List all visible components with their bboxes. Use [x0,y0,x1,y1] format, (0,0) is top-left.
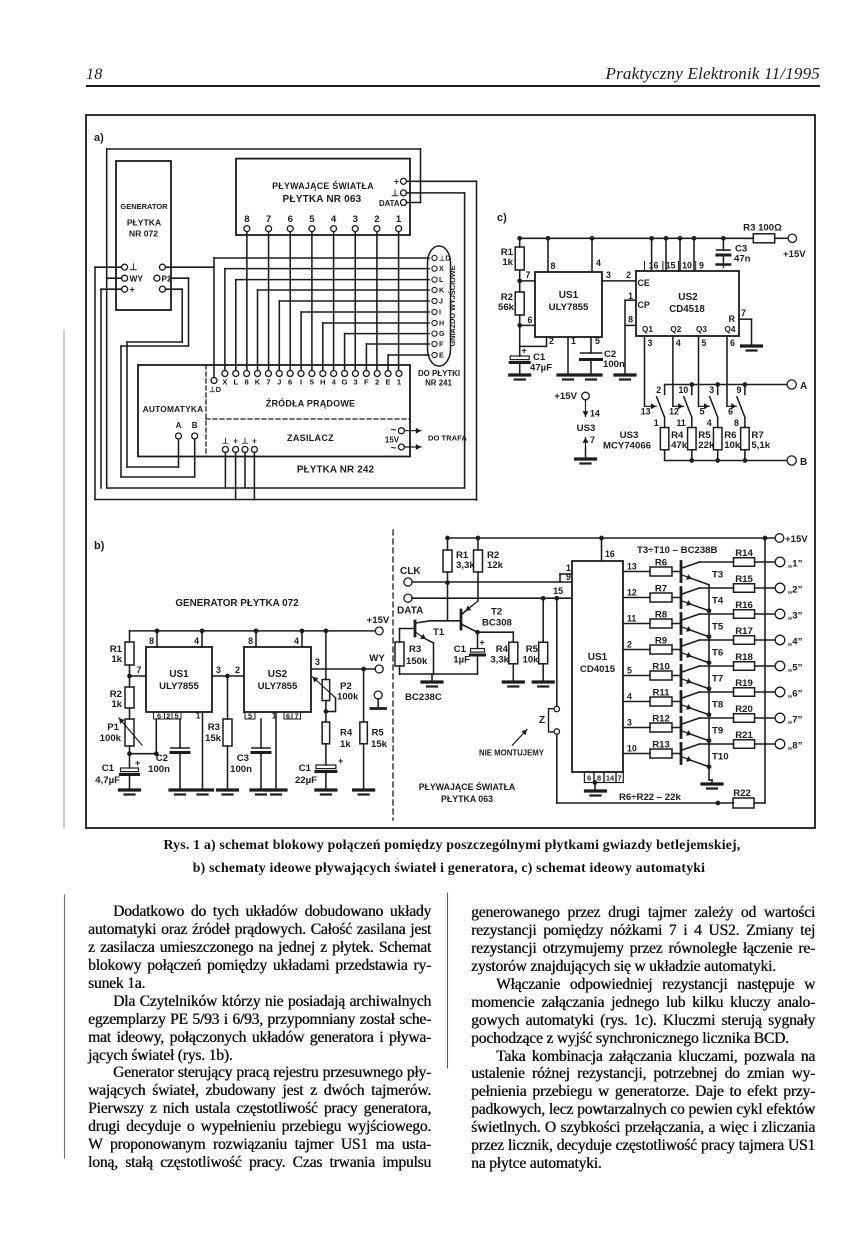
svg-text:b): b) [94,540,105,552]
svg-text:47k: 47k [671,440,688,451]
svg-text:R4: R4 [496,644,509,655]
svg-text:c): c) [497,212,507,224]
svg-text:CD4518: CD4518 [669,304,705,315]
svg-text:R6: R6 [655,558,667,569]
svg-text:5: 5 [700,407,705,417]
svg-text:T4: T4 [712,596,724,607]
svg-text:1µF: 1µF [453,655,470,666]
svg-text:14: 14 [606,774,615,783]
svg-text:T9: T9 [712,726,723,737]
svg-text:PŁYTKA 063: PŁYTKA 063 [441,794,493,804]
svg-text:3: 3 [353,214,358,225]
svg-text:+15V: +15V [367,615,390,626]
svg-text:G: G [342,378,348,387]
svg-text:R: R [729,314,736,324]
svg-text:„3”: „3” [788,611,803,622]
svg-text:4: 4 [331,214,337,225]
svg-text:1: 1 [397,378,402,387]
svg-text:11: 11 [627,614,636,624]
svg-text:DATA: DATA [379,199,400,208]
svg-text:DO PŁYTKI: DO PŁYTKI [418,369,460,378]
svg-text:6: 6 [286,711,290,720]
svg-text:⊥: ⊥ [222,437,229,446]
svg-text:15: 15 [553,586,563,596]
svg-text:~: ~ [391,425,397,436]
svg-text:16: 16 [649,261,659,271]
svg-text:100n: 100n [230,764,252,775]
svg-text:22µF: 22µF [295,775,317,786]
svg-text:Q3: Q3 [696,325,707,334]
svg-text:2: 2 [375,378,379,387]
svg-text:8: 8 [734,418,739,428]
svg-text:3: 3 [709,385,714,395]
svg-text:R16: R16 [735,600,753,611]
svg-text:7: 7 [137,665,142,675]
svg-text:„2”: „2” [788,585,803,596]
svg-text:PŁYTKA: PŁYTKA [127,218,161,228]
svg-text:P2: P2 [340,681,352,692]
svg-text:10: 10 [679,385,689,395]
svg-text:5: 5 [595,336,600,346]
svg-text:T3÷T10 – BC238B: T3÷T10 – BC238B [637,545,718,556]
svg-text:15k: 15k [205,733,222,744]
svg-text:R3: R3 [208,722,220,733]
svg-text:5: 5 [174,711,178,720]
svg-text:PŁYWAJĄCE ŚWIATŁA: PŁYWAJĄCE ŚWIATŁA [272,180,374,191]
svg-text:4: 4 [596,258,601,268]
svg-text:T3: T3 [712,570,723,581]
svg-text:2: 2 [166,711,170,720]
svg-text:C3: C3 [237,753,249,764]
svg-text:„5”: „5” [788,663,803,674]
svg-text:+: + [130,285,135,295]
svg-text:5,1k: 5,1k [751,440,770,451]
svg-text:C1: C1 [299,763,312,774]
svg-text:8: 8 [597,774,601,783]
svg-text:DO TRAFA: DO TRAFA [428,434,467,443]
svg-text:5: 5 [627,666,632,676]
svg-text:2: 2 [374,214,379,225]
svg-text:US3: US3 [577,423,596,434]
svg-text:BC308: BC308 [482,618,513,629]
svg-text:K: K [255,378,261,387]
svg-text:⊥D: ⊥D [439,254,450,263]
svg-text:5: 5 [310,378,315,387]
svg-text:C1: C1 [102,763,115,774]
svg-text:5: 5 [702,338,707,348]
svg-text:T10: T10 [712,752,729,763]
svg-text:100k: 100k [100,733,122,744]
svg-text:4: 4 [194,636,199,646]
svg-text:R5: R5 [526,644,539,655]
svg-text:1: 1 [571,336,576,346]
svg-text:1: 1 [196,711,201,720]
svg-text:US2: US2 [268,669,288,680]
svg-text:13: 13 [627,562,637,572]
svg-text:A: A [176,421,182,430]
svg-text:56k: 56k [498,302,515,313]
svg-text:9: 9 [736,385,741,395]
svg-text:PŁYTKA NR 063: PŁYTKA NR 063 [283,194,362,205]
svg-text:AUTOMATYKA: AUTOMATYKA [143,404,204,414]
svg-text:R12: R12 [652,714,670,725]
svg-text:6: 6 [528,315,533,325]
svg-text:F: F [439,340,444,349]
svg-text:47n: 47n [734,254,751,265]
svg-text:1: 1 [654,418,659,428]
svg-text:R9: R9 [655,636,667,647]
svg-text:6: 6 [288,214,293,225]
svg-text:T5: T5 [712,622,724,633]
svg-text:ULY7855: ULY7855 [549,302,589,313]
svg-text:E: E [386,378,391,387]
svg-text:„1”: „1” [788,559,803,570]
svg-text:22k: 22k [698,440,715,451]
svg-text:B: B [800,457,807,468]
svg-text:R11: R11 [652,688,670,699]
svg-text:R7: R7 [655,584,667,595]
svg-text:4: 4 [676,338,681,348]
svg-text:CLK: CLK [400,566,421,577]
svg-text:P1: P1 [107,722,119,733]
svg-text:G: G [439,329,445,338]
svg-text:12: 12 [669,407,679,417]
svg-text:1k: 1k [111,654,122,665]
svg-text:I: I [439,308,441,317]
svg-text:+15V: +15V [785,534,808,545]
svg-text:13: 13 [641,407,651,417]
svg-text:R20: R20 [735,704,753,715]
svg-text:ZASILACZ: ZASILACZ [287,433,334,443]
svg-text:R21: R21 [735,730,753,741]
svg-text:3: 3 [315,657,320,667]
svg-text:⊥D: ⊥D [209,385,222,394]
svg-text:100n: 100n [148,764,170,775]
svg-text:10: 10 [682,261,692,271]
svg-text:4: 4 [627,692,632,702]
svg-text:DATA: DATA [397,606,423,617]
svg-text:ULY7855: ULY7855 [258,681,298,692]
svg-text:BC238C: BC238C [405,692,442,703]
svg-text:„4”: „4” [788,637,803,648]
svg-text:6: 6 [157,711,161,720]
svg-text:R3: R3 [409,644,421,655]
svg-text:GNIAZDO WYJŚCIOWE: GNIAZDO WYJŚCIOWE [448,265,457,346]
svg-text:+15V: +15V [783,249,806,260]
svg-text:R3 100Ω: R3 100Ω [743,223,782,234]
svg-text:T2: T2 [491,607,502,618]
svg-text:15k: 15k [371,739,388,750]
svg-text:H: H [320,378,325,387]
svg-text:T8: T8 [712,700,724,711]
svg-text:2: 2 [627,640,632,650]
svg-text:+: + [394,177,399,187]
svg-text:7: 7 [266,378,270,387]
svg-text:4: 4 [294,636,299,646]
svg-text:~: ~ [391,443,397,454]
svg-text:R19: R19 [735,678,753,689]
svg-text:NR 241: NR 241 [425,379,452,388]
svg-text:T1: T1 [433,627,445,638]
svg-text:6: 6 [730,338,735,348]
svg-text:12: 12 [627,588,637,598]
svg-text:8: 8 [149,636,154,646]
svg-text:6: 6 [728,407,733,417]
svg-text:16: 16 [605,549,615,559]
svg-text:WY: WY [369,653,385,664]
svg-text:7: 7 [618,774,622,783]
svg-text:12k: 12k [487,560,504,571]
svg-text:4: 4 [332,378,337,387]
svg-text:ŹRÓDŁA PRĄDOWE: ŹRÓDŁA PRĄDOWE [266,398,355,409]
svg-text:8: 8 [244,214,250,225]
svg-text:1: 1 [396,214,402,225]
svg-text:T7: T7 [712,674,723,685]
svg-text:X: X [222,378,227,387]
svg-text:US1: US1 [169,669,189,680]
svg-text:R15: R15 [735,574,753,585]
svg-text:3,3k: 3,3k [490,655,509,666]
svg-text:7: 7 [526,270,531,280]
svg-text:R22: R22 [733,788,751,799]
svg-text:1k: 1k [340,739,351,750]
svg-text:7: 7 [266,214,271,225]
svg-text:3,3k: 3,3k [456,560,475,571]
svg-text:„6”: „6” [788,689,803,700]
svg-text:„8”: „8” [788,741,803,752]
svg-text:11: 11 [676,418,685,428]
svg-text:I: I [300,378,302,387]
svg-text:2: 2 [656,385,661,395]
svg-text:4: 4 [707,418,712,428]
svg-text:R18: R18 [735,652,753,663]
svg-text:CE: CE [638,278,650,288]
svg-text:+: + [480,638,485,648]
svg-text:CD4015: CD4015 [580,664,616,675]
svg-text:+: + [135,758,140,768]
svg-text:Q2: Q2 [670,325,681,334]
svg-text:6: 6 [288,378,292,387]
svg-text:Q1: Q1 [642,325,653,334]
svg-text:R10: R10 [652,662,670,673]
svg-text:4,7µF: 4,7µF [95,775,120,786]
svg-text:WY: WY [130,274,144,284]
svg-text:GENERATOR PŁYTKA 072: GENERATOR PŁYTKA 072 [175,598,299,609]
svg-text:10: 10 [627,744,637,754]
svg-text:47µF: 47µF [530,363,552,374]
svg-text:US2: US2 [678,292,698,303]
svg-text:+: + [252,437,257,446]
svg-text:R6÷R22 – 22k: R6÷R22 – 22k [619,792,681,803]
svg-text:1: 1 [628,291,633,301]
svg-text:J: J [277,378,281,387]
svg-text:PŁYWAJĄCE ŚWIATŁA: PŁYWAJĄCE ŚWIATŁA [419,781,516,792]
svg-text:1k: 1k [111,699,122,710]
svg-text:R14: R14 [735,548,753,559]
svg-text:100n: 100n [603,359,625,370]
svg-text:8: 8 [628,315,633,325]
svg-text:9: 9 [566,572,571,582]
svg-text:C1: C1 [533,352,546,363]
svg-text:14: 14 [590,409,600,419]
svg-text:8: 8 [248,636,253,646]
svg-text:L: L [233,378,238,387]
svg-text:H: H [439,319,444,328]
svg-text:R8: R8 [655,610,668,621]
svg-text:⊥: ⊥ [130,262,138,272]
svg-text:GENERATOR: GENERATOR [120,202,168,211]
svg-text:3: 3 [353,378,357,387]
svg-text:US3: US3 [620,430,639,441]
svg-text:J: J [439,297,443,306]
svg-text:100k: 100k [337,692,359,703]
svg-text:Z: Z [539,715,545,726]
svg-text:2: 2 [626,270,631,280]
svg-text:⊥: ⊥ [242,437,249,446]
svg-text:F: F [364,378,369,387]
svg-text:8: 8 [245,378,249,387]
svg-text:7: 7 [741,308,746,318]
svg-text:NR 072: NR 072 [129,229,158,239]
svg-text:B: B [192,421,198,430]
svg-text:C2: C2 [156,753,168,764]
svg-text:7: 7 [294,711,298,720]
svg-text:C1: C1 [454,644,467,655]
svg-text:L: L [439,275,444,284]
svg-text:6: 6 [587,774,591,783]
svg-text:5: 5 [309,214,315,225]
svg-text:3: 3 [627,718,632,728]
svg-text:K: K [439,286,445,295]
svg-text:X: X [439,264,444,273]
svg-text:1k: 1k [502,257,513,268]
svg-text:ULY7855: ULY7855 [159,681,199,692]
svg-text:US1: US1 [588,652,608,663]
svg-text:+15V: +15V [554,391,577,402]
svg-text:3: 3 [216,665,221,675]
svg-text:15: 15 [666,261,676,271]
svg-text:CP: CP [638,300,650,310]
svg-text:10k: 10k [724,440,741,451]
svg-text:7: 7 [590,435,595,445]
svg-text:5: 5 [248,711,252,720]
svg-text:NIE MONTUJEMY: NIE MONTUJEMY [479,749,545,758]
svg-text:E: E [439,351,444,360]
svg-text:+: + [233,437,238,446]
svg-text:2: 2 [235,665,240,675]
svg-text:R5: R5 [372,728,385,739]
svg-text:+: + [338,756,343,766]
svg-text:150k: 150k [406,656,428,667]
svg-text:10k: 10k [522,655,539,666]
svg-text:US1: US1 [559,290,579,301]
svg-text:⊥: ⊥ [391,188,399,198]
svg-text:R13: R13 [652,740,670,751]
svg-text:R4: R4 [340,728,353,739]
svg-text:9: 9 [699,261,704,271]
svg-text:R17: R17 [735,626,753,637]
svg-text:A: A [800,381,807,392]
svg-text:„7”: „7” [788,715,803,726]
svg-text:8: 8 [551,261,556,271]
svg-text:3: 3 [648,338,653,348]
svg-text:MCY74066: MCY74066 [603,441,651,452]
svg-text:Q4: Q4 [725,325,736,334]
svg-text:2: 2 [549,336,554,346]
svg-text:3: 3 [606,270,611,280]
svg-text:a): a) [94,132,104,144]
svg-text:PŁYTKA NR 242: PŁYTKA NR 242 [297,465,375,476]
svg-text:T6: T6 [712,648,723,659]
